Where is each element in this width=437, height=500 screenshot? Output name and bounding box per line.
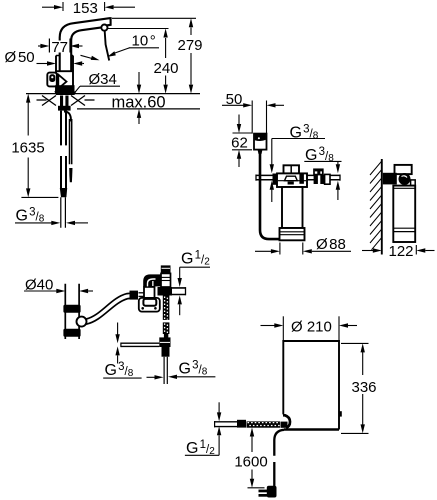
side view top box	[395, 165, 412, 174]
counter section hatch left	[37, 99, 47, 101]
thin tube below tee	[164, 357, 167, 384]
solenoid block	[144, 287, 155, 298]
hose port circle	[77, 317, 87, 327]
braided hose down from tee	[163, 296, 170, 320]
supply pipe diameter arrows	[117, 323, 119, 335]
hose 2 line	[70, 119, 72, 164]
mounting bracket plate	[139, 298, 160, 312]
counter section hatch right	[85, 99, 95, 101]
countertop bottom line	[77, 108, 200, 110]
faucet base flange	[57, 85, 75, 91]
svg-text:Ø88: Ø88	[316, 236, 346, 253]
dimension diameter 88	[279, 243, 281, 255]
extension line at plug level	[248, 487, 265, 489]
faucet spout inner profile	[71, 27, 101, 71]
extension line at hose end	[21, 196, 58, 198]
svg-text:1635: 1635	[11, 140, 44, 157]
side view head circle	[399, 173, 411, 185]
boiler tank outline	[283, 341, 339, 430]
hose diameter arrow below	[217, 426, 221, 435]
dimension 279 extension line	[112, 17, 196, 19]
boiler tank bottom line	[284, 428, 339, 430]
dimension 77 text and arrows	[52, 41, 69, 53]
hose elbow into tank	[283, 415, 290, 428]
filter head cap	[284, 165, 300, 173]
hose 1 end connector	[60, 188, 67, 197]
aerator outlet line (tilted 10 deg)	[105, 31, 110, 60]
pipe between filter and valve	[307, 175, 314, 179]
filter body	[282, 187, 303, 228]
hose to valve (upper edge)	[86, 293, 130, 319]
dimension 279 line with arrows	[190, 28, 192, 36]
control box	[254, 134, 267, 150]
elbow fitting dark	[143, 274, 161, 286]
hose to valve (lower edge)	[86, 298, 130, 324]
power cable	[274, 430, 284, 456]
side view wall bracket	[383, 173, 397, 185]
dimension diameter 210 arrows	[261, 325, 276, 327]
faucet body outer housing	[55, 56, 57, 72]
standpipe clamp ring top	[63, 305, 80, 313]
inlet arrow above hose	[218, 402, 220, 412]
countertop top line	[26, 93, 200, 95]
supply hose 1 lower segment	[61, 156, 66, 189]
hose 2 connector tip	[69, 168, 72, 182]
safety valve body	[161, 273, 171, 287]
svg-text:10°: 10°	[132, 33, 156, 50]
side view body	[393, 186, 415, 242]
diameter 40 standpipe	[65, 284, 79, 339]
valve outlet nut	[325, 174, 330, 184]
hose connector nut	[130, 291, 139, 300]
svg-text:G3/8: G3/8	[105, 361, 134, 379]
svg-text:Ø50: Ø50	[5, 49, 35, 66]
supply pipe horizontal	[121, 343, 159, 346]
dimension 153 left arrow	[42, 6, 55, 8]
dimension 153 right arrow	[104, 2, 106, 11]
tee fitting at supply pipe	[159, 337, 170, 347]
outlet pipe G 1/2	[172, 288, 186, 295]
dimension 50 line with arrows	[222, 104, 244, 106]
standpipe clamp ring bottom	[63, 329, 80, 337]
svg-text:max.60: max.60	[112, 93, 166, 111]
svg-text:Ø34: Ø34	[89, 71, 117, 88]
dimension 77 ticks	[48, 39, 50, 53]
side view step	[411, 180, 416, 186]
filter bottom cup	[280, 228, 305, 240]
lever knob	[47, 73, 57, 87]
wall line side view	[381, 159, 383, 255]
dimension diameter 210 extension lines	[282, 316, 284, 340]
svg-text:279: 279	[177, 37, 202, 54]
svg-text:G1/2: G1/2	[186, 439, 215, 457]
control cable loop	[260, 150, 280, 240]
faucet spout outer profile	[60, 18, 111, 71]
svg-text:1600: 1600	[234, 454, 267, 471]
inlet hose braided section	[247, 421, 281, 427]
svg-text:62: 62	[231, 135, 248, 152]
tank side nub	[339, 411, 342, 416]
filter head	[277, 173, 307, 187]
shut-off valve body	[314, 175, 325, 184]
hose 2 hook curve	[64, 112, 71, 122]
svg-text:122: 122	[388, 243, 413, 260]
svg-text:G3/8: G3/8	[179, 360, 208, 378]
inlet hose G 1/2	[215, 422, 237, 427]
power plug	[267, 486, 277, 498]
wall hatching	[370, 161, 382, 250]
svg-text:240: 240	[153, 60, 178, 77]
spout swivel joint circle	[101, 25, 107, 31]
dimension 62 arrows	[238, 115, 240, 126]
safety valve cap	[161, 265, 171, 273]
outlet pipe right	[330, 175, 340, 179]
faucet outlet tube below hose	[61, 197, 66, 228]
dimension 50 extension lines	[251, 101, 253, 134]
svg-text:77: 77	[51, 39, 68, 56]
dimension 336 line with arrows	[362, 352, 364, 375]
dimension 1635 line with arrows	[27, 97, 29, 136]
shut-off valve handle	[314, 169, 323, 174]
inlet hose fitting	[237, 420, 246, 428]
svg-text:153: 153	[73, 0, 98, 17]
dimension 122	[415, 245, 417, 255]
inlet pipe left	[256, 175, 273, 179]
dimension 336 extension lines	[341, 342, 369, 344]
svg-text:G3/8: G3/8	[16, 207, 45, 225]
lever mark triangle	[58, 75, 66, 89]
dimension 240 reference line from aerator	[108, 28, 169, 30]
faucet cartridge block	[56, 71, 73, 92]
mounting shank below counter	[60, 96, 63, 108]
dimension 62 extension lines	[233, 132, 253, 134]
svg-text:G1/2: G1/2	[181, 250, 210, 268]
hose nut on filter head	[273, 174, 282, 185]
tee fitting dark	[158, 287, 173, 296]
dimension 1600 line with arrows	[250, 428, 254, 437]
svg-text:Ø 210: Ø 210	[291, 319, 332, 336]
svg-text:336: 336	[351, 379, 376, 396]
dimension 240 line with arrows	[165, 38, 167, 58]
supply hose 1 upper segment	[61, 111, 66, 146]
